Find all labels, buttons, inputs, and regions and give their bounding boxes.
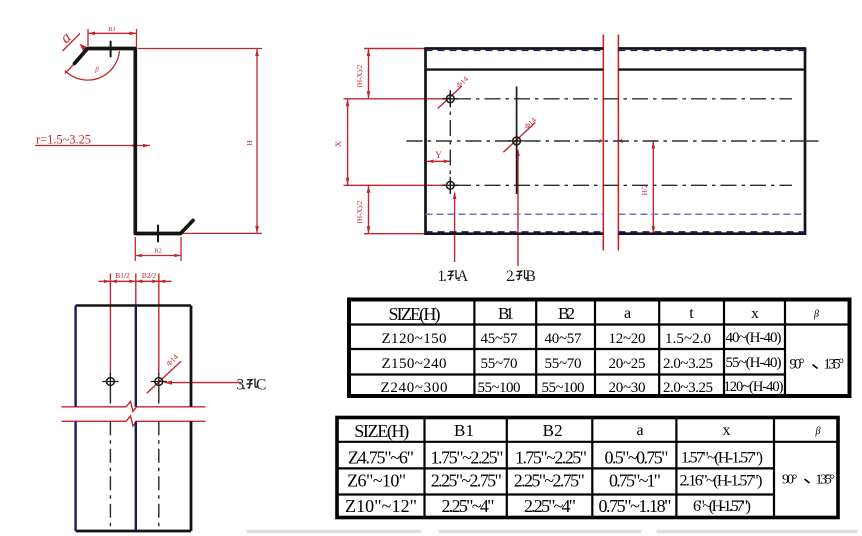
svg-text:a: a (57, 29, 74, 47)
svg-text:B: B (526, 268, 536, 285)
svg-text:Φ14: Φ14 (164, 352, 180, 368)
svg-text:2.25"~4": 2.25"~4" (524, 496, 576, 516)
svg-text:0.75"~1.18": 0.75"~1.18" (599, 496, 672, 516)
svg-text:Z4.75"~6": Z4.75"~6" (348, 448, 414, 468)
svg-text:B1/2: B1/2 (115, 271, 130, 280)
svg-text:2.25"~4": 2.25"~4" (442, 496, 495, 516)
svg-text:Z150~240: Z150~240 (382, 356, 447, 372)
svg-text:135°: 135° (816, 473, 836, 488)
svg-text:1.57"~(H-1.57"): 1.57"~(H-1.57") (681, 450, 763, 467)
svg-text:1.5~2.0: 1.5~2.0 (665, 331, 711, 347)
svg-text:40~57: 40~57 (545, 331, 583, 347)
svg-text:(H-X)/2: (H-X)/2 (356, 200, 364, 223)
svg-text:1.: 1. (438, 268, 448, 285)
svg-text:B1: B1 (498, 304, 514, 323)
svg-text:β: β (94, 66, 99, 74)
svg-text:Φ14: Φ14 (522, 115, 538, 131)
svg-text:a: a (636, 422, 643, 439)
svg-text:β: β (813, 309, 819, 320)
svg-text:135°: 135° (824, 357, 845, 373)
svg-text:C: C (256, 377, 266, 394)
svg-text:Z10"~12": Z10"~12" (345, 496, 417, 516)
svg-text:90°: 90° (790, 357, 805, 373)
svg-text:2.25"~2.75": 2.25"~2.75" (431, 471, 502, 491)
svg-text:1.75"~2.25": 1.75"~2.25" (431, 448, 504, 468)
svg-text:20~30: 20~30 (609, 380, 646, 396)
svg-text:3.: 3. (237, 377, 247, 394)
svg-text:2.: 2. (506, 268, 516, 285)
svg-text:x: x (723, 422, 731, 439)
svg-text:55~70: 55~70 (481, 356, 518, 372)
svg-text:Z240~300: Z240~300 (381, 380, 448, 396)
svg-text:0.5"~0.75": 0.5"~0.75" (605, 448, 669, 468)
svg-text:55~70: 55~70 (545, 356, 582, 372)
svg-text:SIZE(H): SIZE(H) (389, 304, 441, 325)
svg-text:2.25"~2.75": 2.25"~2.75" (514, 471, 585, 491)
svg-text:Φ14: Φ14 (454, 74, 470, 90)
svg-text:120~(H-40): 120~(H-40) (724, 379, 784, 395)
svg-text:40~(H-40): 40~(H-40) (726, 330, 782, 346)
svg-text:20~25: 20~25 (609, 356, 646, 372)
svg-text:45~57: 45~57 (481, 331, 519, 347)
svg-text:t: t (689, 305, 694, 322)
svg-text:Y: Y (435, 150, 442, 160)
svg-text:12~20: 12~20 (609, 331, 646, 347)
svg-text:x: x (751, 306, 759, 322)
svg-text:B2: B2 (543, 421, 563, 440)
svg-text:B1: B1 (454, 421, 474, 440)
svg-text:H: H (245, 140, 254, 146)
svg-text:SIZE(H): SIZE(H) (354, 421, 409, 442)
svg-text:90°: 90° (782, 473, 798, 488)
svg-text:Z6"~10": Z6"~10" (347, 471, 406, 491)
svg-text:2.0~3.25: 2.0~3.25 (663, 380, 713, 396)
svg-text:X: X (334, 141, 343, 147)
svg-text:B2: B2 (154, 248, 162, 255)
svg-text:0.75"~1": 0.75"~1" (609, 471, 661, 491)
svg-text:Z120~150: Z120~150 (382, 331, 447, 347)
svg-text:6"~(H-1.57"): 6"~(H-1.57") (693, 498, 751, 515)
svg-text:55~(H-40): 55~(H-40) (726, 355, 782, 371)
svg-text:B1: B1 (108, 26, 116, 33)
svg-text:55~100: 55~100 (478, 380, 521, 396)
svg-text:2.16"~(H-1.57"): 2.16"~(H-1.57") (680, 473, 763, 490)
svg-text:2.0~3.25: 2.0~3.25 (663, 356, 713, 372)
svg-text:B2: B2 (558, 304, 575, 323)
svg-text:A: A (457, 268, 469, 285)
svg-text:B2/2: B2/2 (142, 271, 157, 280)
svg-text:r=1.5~3.25: r=1.5~3.25 (36, 133, 91, 147)
svg-text:55~100: 55~100 (542, 380, 585, 396)
svg-text:1.75"~2.25": 1.75"~2.25" (515, 448, 587, 468)
svg-text:(H-X)/2: (H-X)/2 (356, 64, 364, 87)
svg-text:β: β (815, 426, 821, 437)
svg-text:a: a (624, 305, 631, 322)
